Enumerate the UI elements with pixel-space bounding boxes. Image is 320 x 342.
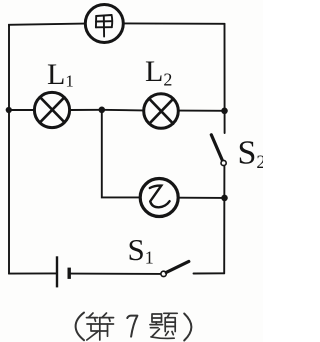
lamp L1: [34, 92, 69, 127]
wire lamp row: L2 to right wire: [179, 110, 224, 112]
caption digit 7: [127, 316, 137, 337]
ammeter U1 甲 (meter jia): [85, 5, 123, 43]
svg-text:S1: S1: [128, 232, 154, 268]
wire lamp row: L1 to junction A: [71, 109, 102, 111]
caption character di (第): [87, 313, 114, 340]
wire lamp row: left wire to L1: [9, 109, 33, 111]
wire bottom: left corner to battery: [9, 272, 56, 274]
battery BT1 (cell): [57, 256, 69, 287]
wire left vertical: [8, 25, 10, 274]
wire: meter B to right wire junction: [180, 197, 225, 199]
svg-text:L2: L2: [145, 55, 172, 90]
junction dot (left wire / lamp row): [6, 107, 12, 113]
svg-text:L1: L1: [47, 58, 74, 91]
wire right vertical lower (S2 to bottom corner): [223, 167, 225, 274]
switch S2: [211, 135, 226, 166]
caption character ti (题): [150, 313, 177, 338]
caption close paren: [184, 314, 191, 341]
wire top-left: left corner to ammeter: [9, 24, 84, 26]
caption (第 7 题): [76, 313, 192, 341]
node A junction dot (between L1 and L2): [99, 107, 106, 114]
junction dot (meter B row / right wire): [221, 195, 228, 202]
svg-text:S2: S2: [238, 135, 264, 174]
wire bottom: S1 to right corner: [194, 272, 225, 274]
lamp L2: [144, 94, 179, 129]
wire branch: junction A down to meter-B row: [102, 110, 139, 198]
switch S1: [161, 261, 189, 276]
wire top-right: ammeter to right corner: [125, 22, 225, 24]
caption open paren: [76, 313, 84, 341]
junction dot (L2 row / right wire): [221, 108, 228, 115]
wire right vertical upper (corner to S2): [224, 24, 226, 133]
wire bottom: battery to S1: [71, 273, 161, 275]
wire lamp row: junction A to L2: [102, 109, 143, 112]
voltmeter U2 乙 (meter yi): [140, 179, 178, 217]
